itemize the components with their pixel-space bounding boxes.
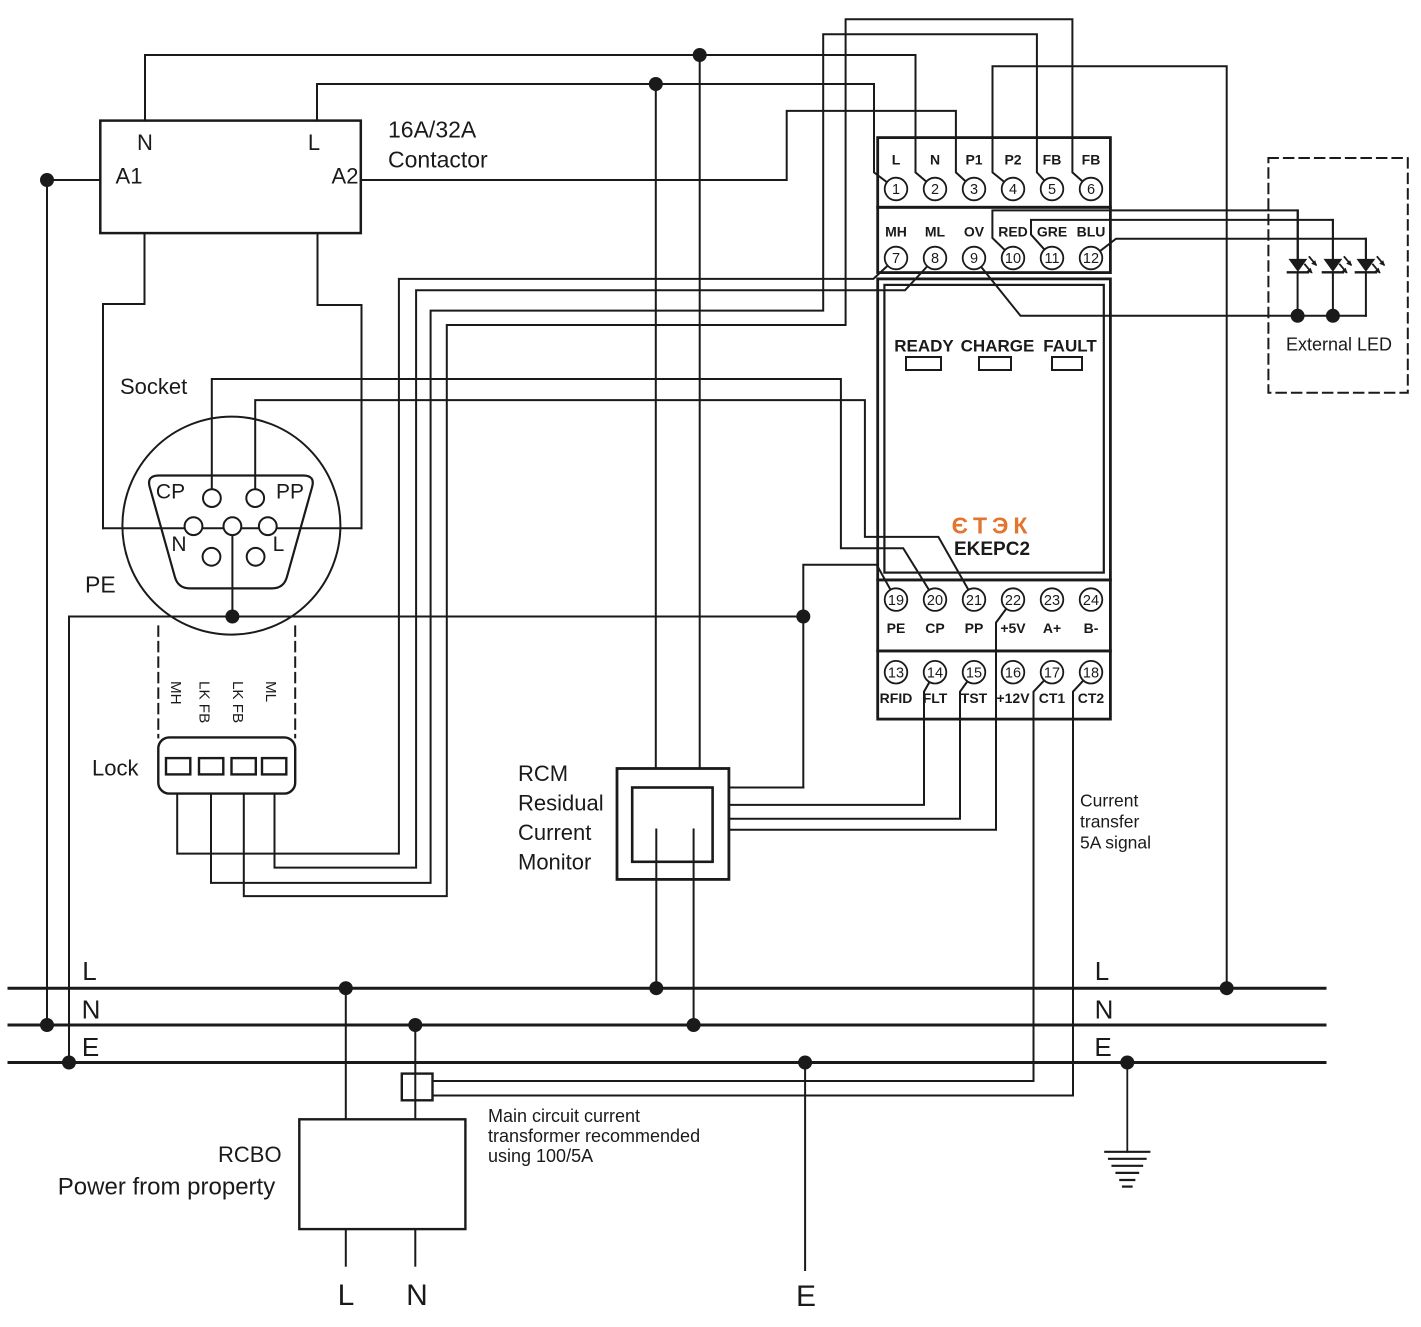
svg-text:TST: TST: [961, 690, 988, 706]
svg-text:ML: ML: [925, 224, 946, 240]
svg-text:transfer: transfer: [1080, 812, 1139, 832]
svg-text:L: L: [338, 1279, 355, 1312]
svg-text:External LED: External LED: [1286, 335, 1392, 355]
svg-text:19: 19: [888, 593, 904, 609]
svg-text:E: E: [796, 1280, 816, 1313]
svg-text:BLU: BLU: [1077, 224, 1106, 240]
svg-text:A2: A2: [332, 164, 359, 189]
svg-text:+5V: +5V: [1000, 620, 1026, 636]
svg-text:5: 5: [1048, 182, 1056, 198]
svg-text:A+: A+: [1043, 620, 1061, 636]
svg-text:LK FB: LK FB: [229, 681, 246, 723]
svg-text:PE: PE: [887, 620, 906, 636]
svg-text:N: N: [137, 130, 153, 155]
svg-text:E: E: [1094, 1032, 1111, 1062]
svg-text:N: N: [82, 995, 101, 1025]
svg-text:CT2: CT2: [1078, 690, 1105, 706]
svg-text:24: 24: [1083, 593, 1099, 609]
svg-text:Main circuit current: Main circuit current: [488, 1106, 640, 1126]
svg-text:20: 20: [927, 593, 943, 609]
svg-text:15: 15: [966, 665, 982, 681]
svg-text:B-: B-: [1084, 620, 1099, 636]
svg-text:ЄТЭК: ЄТЭК: [952, 513, 1033, 539]
svg-text:PE: PE: [85, 572, 116, 598]
svg-text:N: N: [930, 152, 940, 168]
svg-text:13: 13: [888, 665, 904, 681]
svg-text:10: 10: [1005, 251, 1021, 267]
svg-text:CP: CP: [156, 481, 185, 504]
svg-text:N: N: [406, 1279, 428, 1312]
svg-text:8: 8: [931, 251, 939, 267]
svg-text:5A signal: 5A signal: [1080, 833, 1151, 853]
svg-text:CP: CP: [925, 620, 944, 636]
svg-text:using 100/5A: using 100/5A: [488, 1146, 593, 1166]
svg-text:RCM: RCM: [518, 761, 568, 786]
svg-text:READY: READY: [894, 337, 954, 356]
svg-text:FAULT: FAULT: [1043, 337, 1097, 356]
svg-text:transformer recommended: transformer recommended: [488, 1126, 700, 1146]
svg-text:Power from property: Power from property: [58, 1174, 275, 1201]
svg-text:FB: FB: [1082, 152, 1101, 168]
svg-text:+12V: +12V: [996, 690, 1030, 706]
svg-text:14: 14: [927, 665, 943, 681]
svg-text:PP: PP: [276, 481, 304, 504]
svg-text:7: 7: [892, 251, 900, 267]
svg-text:12: 12: [1083, 251, 1099, 267]
svg-text:A1: A1: [116, 164, 143, 189]
svg-text:CHARGE: CHARGE: [961, 337, 1035, 356]
svg-text:L: L: [82, 956, 96, 986]
svg-text:3: 3: [970, 182, 978, 198]
svg-text:MH: MH: [885, 224, 907, 240]
svg-text:GRE: GRE: [1037, 224, 1067, 240]
svg-text:Residual: Residual: [518, 791, 604, 816]
svg-text:16: 16: [1005, 665, 1021, 681]
svg-text:LK FB: LK FB: [196, 681, 213, 723]
svg-text:RCBO: RCBO: [218, 1142, 282, 1167]
svg-text:OV: OV: [964, 224, 985, 240]
svg-text:2: 2: [931, 182, 939, 198]
svg-text:L: L: [308, 130, 320, 155]
svg-text:4: 4: [1009, 182, 1017, 198]
svg-text:23: 23: [1044, 593, 1060, 609]
svg-text:Socket: Socket: [120, 374, 187, 399]
svg-text:22: 22: [1005, 593, 1021, 609]
svg-text:Monitor: Monitor: [518, 850, 591, 875]
svg-text:18: 18: [1083, 665, 1099, 681]
svg-text:EKEPC2: EKEPC2: [954, 539, 1030, 560]
svg-text:P1: P1: [965, 152, 982, 168]
svg-text:CT1: CT1: [1039, 690, 1066, 706]
svg-text:1: 1: [892, 182, 900, 198]
svg-text:16A/32A: 16A/32A: [388, 117, 477, 143]
svg-text:L: L: [273, 533, 285, 556]
svg-text:P2: P2: [1004, 152, 1021, 168]
svg-text:17: 17: [1044, 665, 1060, 681]
svg-text:Lock: Lock: [92, 756, 139, 781]
svg-text:L: L: [892, 152, 901, 168]
svg-text:11: 11: [1044, 251, 1059, 267]
svg-text:N: N: [1095, 995, 1114, 1025]
svg-text:N: N: [171, 533, 186, 556]
svg-text:9: 9: [970, 251, 978, 267]
svg-text:6: 6: [1087, 182, 1095, 198]
svg-text:RED: RED: [998, 224, 1028, 240]
svg-text:FLT: FLT: [923, 690, 948, 706]
svg-text:E: E: [82, 1032, 99, 1062]
svg-text:Current: Current: [518, 820, 591, 845]
svg-text:Contactor: Contactor: [388, 147, 488, 173]
svg-text:PP: PP: [965, 620, 984, 636]
svg-text:RFID: RFID: [880, 690, 913, 706]
svg-text:L: L: [1095, 956, 1109, 986]
svg-text:MH: MH: [167, 681, 184, 705]
svg-text:FB: FB: [1043, 152, 1062, 168]
svg-text:Current: Current: [1080, 791, 1138, 811]
svg-text:ML: ML: [262, 681, 279, 702]
svg-text:21: 21: [966, 593, 982, 609]
